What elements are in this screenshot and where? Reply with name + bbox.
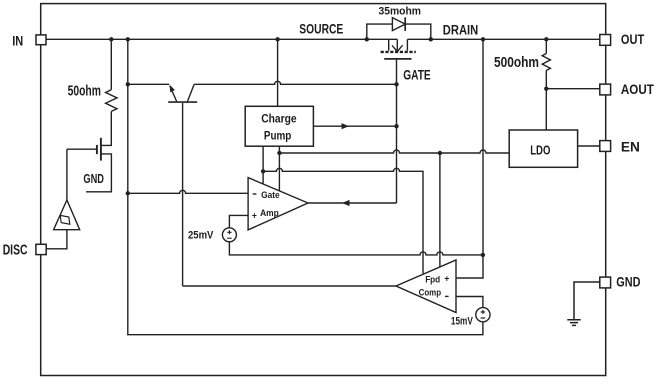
diode D1 body diode triangle [392,18,405,31]
LDO box U4 [509,130,577,167]
power MOSFET M1 body drop [396,39,398,51]
svg-text:15mV: 15mV [451,316,473,328]
svg-text:EN: EN [621,140,640,156]
svg-text:IN: IN [12,33,23,49]
resistor R 500ohm top wire [545,39,547,53]
arrowhead on gate amp output pointing left [342,200,350,206]
wire Q1 emitter to sense line [128,83,170,85]
comparator U5 Fpd comp triangle [396,260,456,313]
wire W1: charge pump right stub to LDO (hops gate line and drain sense) [279,150,509,153]
svg-text:Charge: Charge [261,112,297,126]
power MOSFET M1 dashed channel [381,51,416,53]
diode D1 cathode bar [404,17,406,31]
wire sense line x=127.8 down to bottom loop and 15mV source [128,39,483,334]
power MOSFET M1 source stub [388,39,390,50]
svg-text:GND: GND [616,274,640,289]
wire Q1 collector to gate line (hop over charge pump feed) [194,81,396,84]
wire discharge buffer to M2 gate [66,149,68,200]
wire Fpd comp output to Q1 base [183,285,396,287]
svg-text:Fpd: Fpd [425,274,440,284]
resistor R 500ohm zigzag [542,54,550,71]
svg-text:35mohm: 35mohm [379,5,422,17]
wire LDO to EN pin [578,145,600,147]
voltage source V2 15mV circle [476,308,490,322]
wire charge pump feed from rail [277,39,279,106]
wire charge pump right stub into gate amp [278,146,280,191]
wire gate amp inverting input (hop over Q1 base) [128,190,248,193]
wire main rail right (FET drain to OUT) [407,38,599,40]
arrowhead on charge pump output [342,123,350,129]
pin GND [600,277,611,288]
wire main rail left (IN to FET source) [46,38,397,40]
svg-text:500ohm: 500ohm [494,55,539,71]
MOSFET M2 gate bar [96,145,98,154]
wire 500ohm bottom to LDO top [545,71,547,131]
wire 50ohm branch top [110,39,112,90]
svg-text:Comp: Comp [419,288,442,298]
MOSFET M2 channel bar [100,138,102,161]
wire W2: charge pump left stub to Fpd comp (hops right stub and gate line) [263,168,423,273]
transistor Q1 base bar [168,101,197,103]
wire charge pump left stub into gate amp [262,146,264,184]
wire Fpd comp minus input to 15mV [456,297,483,308]
svg-text:AOUT: AOUT [621,82,654,98]
svg-text:SOURCE: SOURCE [299,21,343,37]
label minus Gate [253,193,257,195]
svg-text:DISC: DISC [3,242,28,258]
transistor Q1 emitter diagonal [170,86,177,102]
transistor Q1 emitter arrowhead [170,85,175,93]
wire AOUT branch [546,88,600,90]
pin AOUT [600,84,611,95]
svg-text:DRAIN: DRAIN [443,22,478,38]
svg-text:+: + [444,273,449,284]
MOSFET M2 source wire to GND [86,154,111,192]
buffer U1 discharge triangle [54,200,80,230]
svg-text:GND: GND [83,172,104,186]
svg-text:Pump: Pump [264,128,292,142]
svg-text:50ohm: 50ohm [68,84,101,100]
op-amp U3 gate amp triangle [248,178,308,230]
svg-text:+: + [252,211,257,222]
hysteresis glyph [60,215,70,224]
wire body diode loop [367,24,431,39]
pin IN [36,35,46,45]
MOSFET M2 discharge FET gate lead [67,148,97,150]
wire DISC pin to buffer [47,230,67,249]
power MOSFET M1 drain stub [406,39,408,50]
svg-text:OUT: OUT [621,32,645,48]
wire gate amp output to gate line [308,202,397,204]
svg-text:Amp: Amp [260,208,279,218]
wire Q1 base down [182,103,184,286]
voltage source V1 25mV circle [222,228,236,242]
resistor R 50ohm zigzag [106,90,117,112]
wire W3: from W1 junction down into Fpd comp [439,153,441,267]
svg-text:GATE: GATE [403,68,431,83]
ground symbol [567,282,600,325]
svg-text:25mV: 25mV [188,230,214,242]
svg-text:LDO: LDO [530,142,550,157]
wire DRAIN sense vertical to Fpd + input [456,39,483,278]
pin OUT [600,35,611,46]
wire gate amp non-inverting input to 25mV [229,215,248,228]
wire 50ohm to M2 drain [101,111,111,145]
wire charge pump output to gate line [313,125,396,127]
pin EN [600,141,611,152]
power MOSFET M1 gate plate [384,58,411,60]
charge pump box U2 [245,106,313,146]
transistor Q1 collector diagonal [187,84,194,101]
svg-text:Gate: Gate [261,190,280,200]
power MOSFET M1 body arrow barbs [392,45,403,51]
wire 25mV bottom to drain sense line (hops W2 vertical and W3) [229,242,483,255]
pin DISC [36,244,46,254]
wire gate line from plate down to amp output [396,59,398,203]
